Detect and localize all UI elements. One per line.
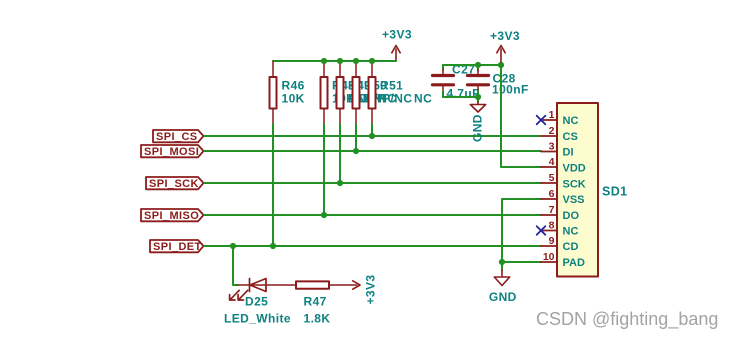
svg-text:3: 3: [549, 141, 555, 153]
LED D25: [224, 279, 352, 326]
resistor R47: [296, 281, 330, 325]
label SPI_MISO: [141, 209, 204, 222]
svg-text:10: 10: [543, 251, 555, 263]
wire VSS pin 6 to GND: [502, 199, 541, 270]
pin 8 NC: [541, 220, 578, 238]
junction PAD/VSS: [499, 259, 505, 265]
svg-text:SPI_CS: SPI_CS: [156, 131, 198, 143]
power GND (below C27/C28): [470, 102, 485, 142]
svg-text:VDD: VDD: [563, 163, 586, 175]
svg-text:6: 6: [549, 188, 555, 200]
pin 1 NC: [541, 109, 578, 127]
label SPI_CS: [153, 130, 204, 143]
svg-text:GND: GND: [489, 290, 517, 304]
svg-text:SPI_DET: SPI_DET: [153, 241, 202, 253]
wire +3V3 to VDD pin 4: [501, 65, 541, 167]
no-connect X pin 1: [537, 116, 546, 125]
svg-text:SCK: SCK: [563, 178, 586, 190]
svg-text:1.8K: 1.8K: [304, 311, 331, 325]
power +3V3 PWR01 (left, above pull-up resistors): [382, 28, 412, 61]
svg-text:+3V3: +3V3: [382, 28, 412, 42]
svg-text:8: 8: [549, 220, 555, 232]
svg-text:2: 2: [549, 125, 555, 137]
resistor R49: [337, 61, 397, 124]
wire SPI_DET to LED branch: [233, 246, 238, 285]
capacitor C28: [468, 65, 529, 97]
pin 9 CD: [541, 235, 578, 253]
svg-text:9: 9: [549, 235, 555, 247]
svg-text:NC: NC: [563, 226, 579, 238]
pin 10 PAD: [541, 251, 585, 269]
svg-text:SPI_SCK: SPI_SCK: [149, 178, 199, 190]
svg-text:SPI_MOSI: SPI_MOSI: [144, 146, 199, 158]
pin 7 DO: [541, 204, 579, 222]
wire SPI_SCK net: [204, 182, 541, 184]
svg-text:+3V3: +3V3: [490, 29, 520, 43]
wire SPI_DET net: [204, 245, 541, 247]
svg-text:R46: R46: [282, 78, 305, 92]
pin 5 SCK: [541, 172, 586, 190]
label SPI_MOSI: [141, 145, 204, 158]
junction rail dots: [321, 58, 375, 64]
svg-text:+3V3: +3V3: [364, 275, 378, 305]
svg-text:5: 5: [549, 172, 555, 184]
pin 2 CS: [541, 125, 578, 143]
svg-text:DI: DI: [563, 147, 574, 159]
svg-text:CD: CD: [563, 241, 579, 253]
pin 6 VSS: [541, 188, 585, 206]
wire R48 bottom to SPI_MISO net: [323, 124, 325, 215]
resistor R51: [369, 61, 433, 124]
pin 4 VDD: [541, 156, 586, 175]
wire PAD pin 10 to GND net: [502, 261, 541, 263]
svg-text:DO: DO: [563, 210, 580, 222]
svg-text:NC: NC: [414, 92, 432, 106]
wire R49 bottom to SPI_SCK net: [339, 124, 341, 183]
svg-text:10K: 10K: [282, 92, 305, 106]
svg-text:PAD: PAD: [563, 257, 585, 269]
svg-text:SPI_MISO: SPI_MISO: [144, 210, 199, 222]
svg-text:D25: D25: [245, 295, 268, 309]
power +3V3 (right of R47, rotated): [352, 275, 378, 305]
svg-text:1: 1: [549, 109, 555, 121]
svg-text:SD1: SD1: [602, 185, 628, 199]
label SPI_DET: [150, 240, 204, 253]
wire +3V3 rail (R46 top to +3V3 arrow): [273, 60, 396, 62]
svg-text:R47: R47: [304, 295, 327, 309]
resistor R46: [270, 61, 305, 124]
power GND (below SD1): [489, 270, 517, 304]
pin 3 DI: [541, 141, 574, 159]
no-connect X pin 8: [537, 226, 546, 235]
capacitor C27: [433, 62, 480, 100]
wire SPI_MISO net: [204, 214, 541, 216]
junction pull-up nets: [230, 133, 375, 249]
svg-text:R51: R51: [380, 78, 403, 92]
svg-text:CS: CS: [563, 131, 578, 143]
resistor R50: [353, 61, 413, 124]
wire R46 bottom to SPI_DET net: [272, 124, 274, 246]
power +3V3 (above C27/C28): [490, 29, 520, 62]
svg-text:GND: GND: [471, 114, 485, 142]
wire R50 bottom to SPI_MOSI net: [355, 124, 357, 151]
wire capacitor top rail to +3V3: [443, 64, 501, 66]
wire capacitor bottom rail to GND: [443, 97, 478, 102]
wire SPI_MOSI net: [204, 150, 541, 152]
connector SD1: [557, 103, 628, 277]
wire R51 bottom to SPI_CS net: [371, 124, 373, 136]
wire SPI_CS net: [204, 135, 541, 137]
label SPI_SCK: [146, 177, 204, 190]
resistor R48: [321, 61, 386, 124]
svg-text:LED_White: LED_White: [224, 312, 291, 326]
svg-text:NC: NC: [563, 115, 579, 127]
svg-text:7: 7: [549, 204, 555, 216]
svg-text:VSS: VSS: [563, 194, 585, 206]
svg-text:4: 4: [549, 156, 555, 168]
svg-text:100nF: 100nF: [492, 83, 529, 97]
junction capacitor rails: [475, 62, 504, 100]
svg-text:4.7uF: 4.7uF: [447, 87, 480, 101]
watermark CSDN: [536, 309, 718, 330]
